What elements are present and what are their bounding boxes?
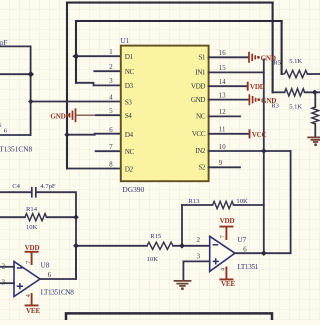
wire vertical bus x=30.6 (net S3) bbox=[30, 46, 32, 135]
wire net D1/D3 : left vertical bus x=76 bbox=[75, 21, 77, 83]
svg-text:6: 6 bbox=[48, 272, 52, 279]
bottom component box (cut at bottom edge) bbox=[66, 313, 272, 320]
wire R3 to right edge bbox=[305, 91, 320, 93]
svg-text:NC: NC bbox=[125, 148, 135, 156]
wire C4 to feedback bus bbox=[37, 192, 76, 279]
svg-text:VDD: VDD bbox=[220, 217, 235, 225]
wire U8 output to R15 bbox=[76, 245, 147, 247]
svg-text:11: 11 bbox=[219, 127, 226, 134]
junction node at (314.8,92.3) bbox=[312, 90, 318, 96]
wire R4 to ground bbox=[314, 124, 316, 137]
resistor R13 bbox=[213, 201, 234, 208]
junction arrow at (75.7,56.2) bbox=[72, 53, 79, 59]
resistor R14 bbox=[25, 214, 47, 221]
junction node at (182,245.8) bbox=[179, 243, 185, 249]
svg-text:D2: D2 bbox=[125, 165, 134, 173]
wire pin 12 right side bbox=[209, 115, 240, 117]
svg-text:S3: S3 bbox=[125, 98, 132, 106]
svg-text:10: 10 bbox=[219, 144, 226, 151]
wire U8 output to feedback bus bbox=[40, 246, 76, 279]
junction node at (30.6,101.5) bbox=[28, 99, 33, 104]
U8 plus input marker bbox=[17, 283, 23, 289]
svg-text:IN1: IN1 bbox=[195, 69, 206, 77]
svg-text:10K: 10K bbox=[26, 224, 38, 231]
svg-text:C4: C4 bbox=[12, 183, 20, 190]
wire into resistor R3 bbox=[273, 91, 285, 93]
svg-text:S1: S1 bbox=[198, 54, 205, 62]
wire U7 output up to IN2 (vertical x=264.3) bbox=[263, 151, 265, 253]
wire R13 right segment to output vertical bbox=[234, 204, 264, 206]
U7 plus input marker bbox=[213, 258, 219, 264]
wire R14 to feedback bus bbox=[47, 216, 76, 218]
wire junction down to resistor R4 bbox=[314, 92, 316, 107]
svg-text:R13: R13 bbox=[188, 198, 200, 205]
wire R13 left segment bbox=[182, 204, 213, 206]
wire into U8 pin 2 bbox=[0, 266, 14, 268]
svg-text:8: 8 bbox=[109, 161, 113, 168]
svg-text:15: 15 bbox=[219, 65, 226, 72]
wire pin 7 (NC) stub bbox=[96, 150, 121, 152]
junction node at (76,217.2) bbox=[73, 214, 79, 220]
svg-text:GND: GND bbox=[50, 112, 65, 120]
wire pin 10 right side bbox=[209, 150, 291, 152]
U7 minus input marker bbox=[213, 244, 219, 246]
wire pin 13 right side bbox=[209, 99, 249, 101]
svg-text:3: 3 bbox=[197, 254, 201, 261]
svg-text:R5: R5 bbox=[273, 59, 281, 66]
wire net D1/D3 : right vertical down to R5 bbox=[281, 21, 283, 74]
wire pin 3 (D3) with jog bbox=[76, 83, 121, 86]
power port VCC at pin 11 bbox=[249, 129, 251, 138]
svg-text:4: 4 bbox=[109, 94, 113, 101]
svg-text:7: 7 bbox=[109, 144, 113, 151]
svg-text:U7: U7 bbox=[237, 236, 246, 244]
svg-text:NC: NC bbox=[196, 113, 206, 121]
svg-text:2: 2 bbox=[109, 64, 113, 71]
svg-text:12: 12 bbox=[219, 109, 226, 116]
resistor R4 (vertical) bbox=[312, 107, 319, 124]
svg-text:10K: 10K bbox=[236, 198, 248, 205]
wire R13 left vertical x=182 bbox=[181, 205, 183, 246]
wire left edge into node at y=74 bbox=[0, 73, 31, 75]
svg-text:VDD: VDD bbox=[250, 83, 265, 91]
svg-text:R15: R15 bbox=[150, 233, 162, 240]
svg-text:9: 9 bbox=[219, 160, 223, 167]
wire pin 5 (S4) stub bbox=[96, 114, 121, 116]
svg-text:GND: GND bbox=[191, 96, 205, 104]
wire into U8 pin 3 bbox=[0, 282, 14, 284]
svg-text:VCC: VCC bbox=[252, 131, 267, 139]
svg-text:10K: 10K bbox=[147, 256, 159, 263]
resistor R15 bbox=[147, 242, 173, 249]
svg-text:LT1351CN8: LT1351CN8 bbox=[0, 145, 32, 154]
svg-text:5.1K: 5.1K bbox=[289, 104, 302, 111]
svg-text:14: 14 bbox=[219, 79, 226, 86]
svg-text:D1: D1 bbox=[125, 53, 134, 61]
svg-text:2: 2 bbox=[2, 263, 6, 270]
U8 minus input marker bbox=[17, 267, 23, 269]
wire U7 output bbox=[235, 252, 291, 254]
wire op-amp output (left, cut) to bus bbox=[0, 134, 31, 136]
power port VDD at pin 14 bbox=[247, 82, 249, 91]
wire pin 8 (D2) from bus corner bbox=[67, 168, 121, 170]
svg-text:U8: U8 bbox=[41, 262, 50, 270]
svg-text:R3: R3 bbox=[271, 103, 279, 110]
svg-text:VEE: VEE bbox=[221, 280, 235, 288]
junction node at (30.6,74) bbox=[28, 71, 34, 77]
wire net D2/D4 : left vertical bus x=67 bbox=[66, 3, 68, 169]
svg-text:D4: D4 bbox=[125, 131, 134, 139]
wire pin 11 right side bbox=[209, 133, 249, 135]
resistor R5 bbox=[282, 73, 285, 75]
svg-text:16: 16 bbox=[219, 50, 226, 57]
ground GND at pin 16 (S1) bbox=[249, 52, 255, 63]
junction node at (76,245.8) bbox=[73, 243, 79, 249]
wire pin 2 (NC) stub bbox=[94, 70, 121, 72]
wire IN2 (pin 10) right segment bbox=[290, 151, 292, 253]
svg-text:13: 13 bbox=[219, 92, 226, 99]
wire net D2/D4 : right vertical down to R3 bbox=[272, 3, 274, 93]
wire pin 6 (D4) from bus with jog bbox=[67, 134, 121, 135]
ground GND at pin 13 bbox=[249, 94, 255, 105]
svg-text:1: 1 bbox=[109, 49, 112, 56]
wire IN1 (pin 15) to vertical bbox=[263, 60, 265, 151]
wire R15 to U7 inverting input bbox=[173, 245, 210, 247]
power port VEE below U8 bbox=[25, 293, 39, 305]
wire left edge to C4 bbox=[0, 191, 31, 193]
svg-text:U1: U1 bbox=[120, 37, 129, 45]
svg-text:LT1351: LT1351 bbox=[237, 263, 258, 271]
svg-text:2: 2 bbox=[197, 237, 201, 244]
IC U1 body bbox=[121, 46, 209, 182]
wire net D1/D3 : top horizontal y=21 bbox=[76, 20, 282, 22]
wire U7 pin 3 to ground bbox=[183, 261, 209, 280]
op-amp U8 bbox=[14, 262, 40, 297]
svg-text:3: 3 bbox=[2, 280, 6, 287]
svg-text:VDD: VDD bbox=[191, 82, 205, 90]
svg-text:5.1K: 5.1K bbox=[289, 58, 302, 65]
wire pin 9 right side bbox=[209, 166, 240, 168]
ground below R4 bbox=[307, 137, 320, 142]
svg-text:VEE: VEE bbox=[26, 307, 40, 315]
junction node at (263.3,151) on IN2 wire bbox=[261, 148, 267, 154]
wire net D2/D4 : top horizontal y=2.6 bbox=[67, 2, 273, 4]
wire pin 1 (D1) with arrow junction bbox=[75, 55, 121, 57]
svg-text:S2: S2 bbox=[198, 164, 205, 172]
wire 7pF net to vertical bus bbox=[0, 45, 31, 47]
op-amp U7 bbox=[210, 236, 235, 271]
svg-text:5: 5 bbox=[109, 108, 113, 115]
svg-text:IN2: IN2 bbox=[195, 147, 206, 155]
svg-text:R14: R14 bbox=[26, 206, 38, 213]
svg-text:D3: D3 bbox=[125, 82, 134, 90]
resistor R3 bbox=[285, 89, 305, 96]
wire R5 to right edge bbox=[307, 73, 320, 75]
svg-text:4.7pF: 4.7pF bbox=[40, 183, 56, 190]
wire left edge to R14 bbox=[0, 216, 25, 218]
svg-text:DG390: DG390 bbox=[122, 185, 144, 194]
junction node at (67,134.7) bbox=[64, 132, 69, 137]
power port VEE below U7 bbox=[219, 267, 233, 280]
svg-text:NC: NC bbox=[125, 68, 135, 76]
svg-text:VCC: VCC bbox=[192, 130, 206, 138]
svg-text:VDD: VDD bbox=[25, 244, 40, 252]
junction node at (264.3,253.2) bbox=[261, 250, 267, 256]
wire pin 4 (S3) from bus bbox=[31, 101, 121, 103]
svg-text:6: 6 bbox=[109, 127, 113, 134]
wire pin 15 right side bbox=[209, 71, 264, 73]
svg-text:LT1351CN8: LT1351CN8 bbox=[41, 288, 75, 296]
svg-text:S4: S4 bbox=[125, 112, 132, 120]
svg-text:3: 3 bbox=[109, 78, 113, 85]
capacitor C4 bbox=[32, 187, 36, 198]
wire pin 16 right side bbox=[209, 56, 249, 58]
wire pin 14 right side bbox=[209, 85, 248, 87]
ground at U7 pin 3 bbox=[174, 281, 192, 286]
